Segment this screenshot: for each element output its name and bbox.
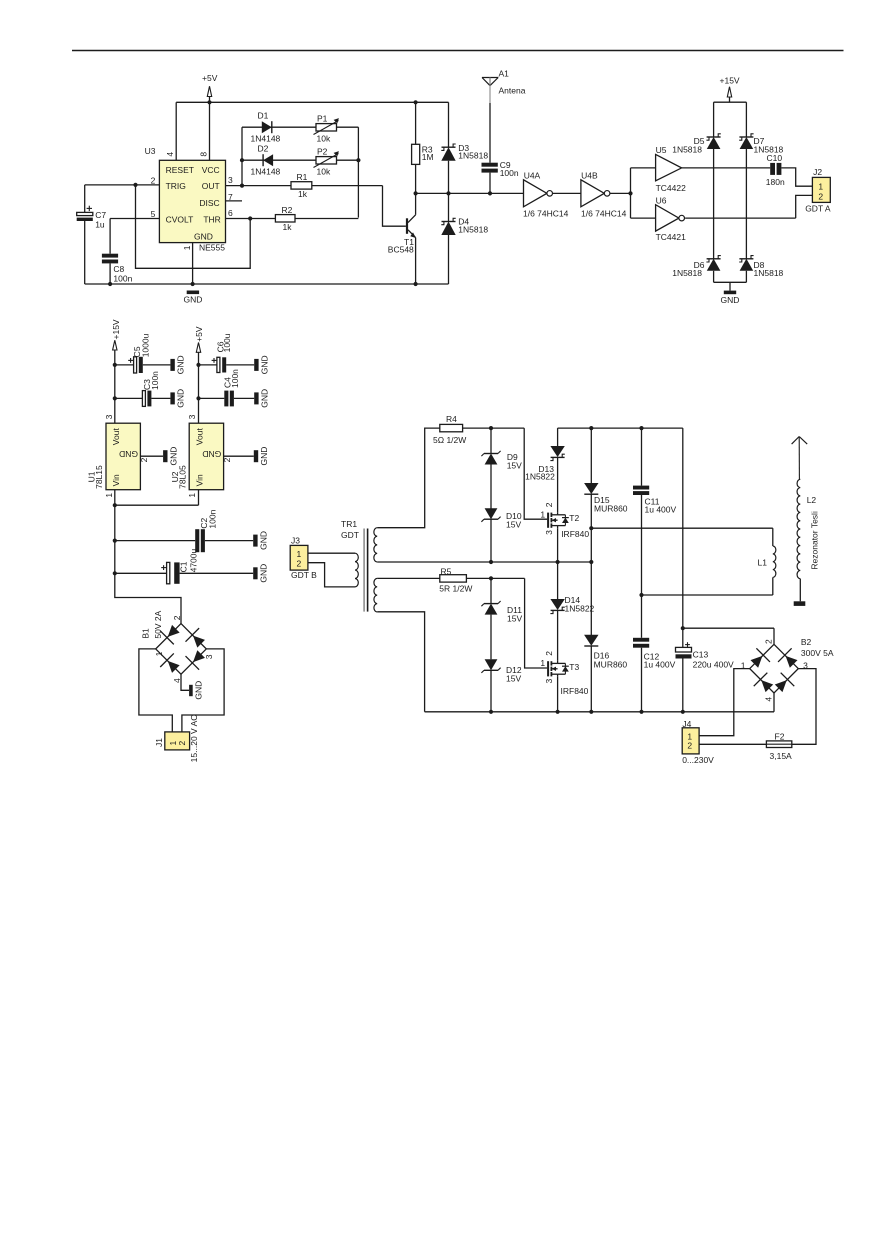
- svg-text:Vout: Vout: [111, 428, 121, 446]
- wire T3 source: [557, 677, 559, 712]
- ground U2 pin2: [224, 447, 269, 466]
- IC U3 NE555: [145, 146, 233, 253]
- diode D15 MUR860: [584, 428, 628, 562]
- svg-text:100n: 100n: [207, 509, 217, 528]
- capacitor C8 100n: [102, 219, 133, 285]
- mosfet T2 IRF840: [540, 502, 589, 539]
- wire +5V rail to U2: [196, 363, 200, 423]
- svg-text:GND: GND: [176, 389, 186, 408]
- connector J1: [154, 715, 199, 763]
- svg-text:GND: GND: [168, 447, 178, 466]
- svg-text:1M: 1M: [422, 152, 434, 162]
- wire TRIG: [85, 183, 160, 187]
- svg-text:5R 1/2W: 5R 1/2W: [439, 584, 472, 594]
- diode D6 1N5818: [672, 256, 721, 283]
- inductor L2 Rezonator Tesli: [792, 437, 820, 602]
- svg-text:GND: GND: [202, 449, 221, 459]
- regulator U1 78L15: [87, 414, 149, 497]
- svg-text:5Ω 1/2W: 5Ω 1/2W: [433, 435, 466, 445]
- svg-text:+5V: +5V: [194, 326, 204, 342]
- wire T3 gate path: [525, 578, 548, 668]
- wire GND bus: [85, 282, 449, 286]
- resistor R1 1k: [226, 172, 383, 199]
- zener D11 15V: [481, 578, 522, 659]
- wire L1 top row: [591, 528, 773, 546]
- ground B1 pin4: [181, 674, 203, 699]
- wire B2 pin3 to F2: [792, 669, 816, 745]
- svg-text:GDT A: GDT A: [805, 204, 831, 214]
- svg-text:P2: P2: [317, 146, 328, 156]
- ground C1: [253, 564, 268, 583]
- svg-text:2: 2: [687, 741, 692, 751]
- wire B2 pin1 to J4: [699, 669, 750, 736]
- svg-text:15V: 15V: [506, 673, 521, 683]
- capacitor C7 1u: [77, 185, 107, 284]
- inverter U4A 74HC14: [523, 170, 569, 218]
- svg-text:1N4148: 1N4148: [251, 134, 281, 144]
- wire driver top rail: [714, 101, 747, 103]
- svg-text:TC4421: TC4421: [656, 232, 687, 242]
- zener D12 15V: [481, 659, 521, 712]
- svg-text:100n: 100n: [230, 369, 240, 388]
- resistor R2 1k: [226, 205, 359, 232]
- ground C2: [253, 531, 268, 550]
- capacitor C13 220u 400V: [676, 642, 735, 712]
- svg-text:C13: C13: [693, 649, 709, 659]
- svg-text:R4: R4: [446, 414, 457, 424]
- ground at U3: [183, 291, 202, 305]
- ground driver: [721, 282, 740, 305]
- svg-text:1: 1: [182, 245, 192, 250]
- svg-text:100n: 100n: [500, 168, 519, 178]
- diode D4 1N5818: [441, 193, 488, 284]
- wire U4A-U4B: [553, 192, 581, 194]
- wire main rail down: [113, 505, 181, 624]
- svg-text:3: 3: [204, 654, 214, 659]
- svg-text:1: 1: [818, 181, 823, 191]
- transformer TR1 GDT: [341, 519, 377, 612]
- svg-text:+15V: +15V: [720, 75, 740, 85]
- svg-text:U5: U5: [656, 145, 667, 155]
- mosfet T3 IRF840: [540, 651, 588, 696]
- svg-text:T3: T3: [569, 662, 579, 672]
- svg-text:B1: B1: [141, 628, 151, 639]
- svg-text:GND: GND: [258, 564, 268, 583]
- svg-text:R5: R5: [441, 566, 452, 576]
- wire T2 source: [557, 528, 559, 562]
- wire U1-U2 Vin link: [113, 490, 199, 508]
- svg-text:+5V: +5V: [202, 73, 218, 83]
- svg-text:D1: D1: [258, 111, 269, 121]
- svg-text:P1: P1: [317, 113, 328, 123]
- antenna A1: [482, 69, 526, 163]
- svg-text:RESET: RESET: [166, 165, 194, 175]
- svg-text:T2: T2: [569, 513, 579, 523]
- svg-text:2: 2: [139, 457, 149, 462]
- svg-text:0...230V: 0...230V: [682, 755, 714, 765]
- svg-text:4: 4: [165, 152, 175, 157]
- wire B1 pin3 to J1: [182, 649, 224, 732]
- svg-text:GND: GND: [183, 295, 202, 305]
- svg-text:Rezonator Tesli: Rezonator Tesli: [810, 511, 820, 570]
- wire driver bottom rail: [714, 281, 747, 283]
- capacitor C10 180n: [766, 153, 785, 187]
- svg-text:GND: GND: [259, 389, 269, 408]
- zener D10 15V: [481, 508, 521, 562]
- ground C4: [254, 389, 269, 408]
- svg-text:A1: A1: [499, 69, 510, 79]
- svg-text:15V: 15V: [507, 460, 522, 470]
- svg-text:15V: 15V: [507, 613, 522, 623]
- svg-text:L1: L1: [758, 557, 768, 567]
- svg-text:15V: 15V: [506, 519, 521, 529]
- capacitor C1 4700u: [115, 548, 253, 583]
- svg-text:GND: GND: [259, 355, 269, 374]
- wire T2 gate path: [524, 428, 547, 519]
- zener D9 15V: [481, 428, 522, 509]
- connector J4: [682, 719, 714, 765]
- fuse F2 3.15A: [699, 731, 792, 760]
- svg-text:R1: R1: [297, 172, 308, 182]
- svg-text:1u 400V: 1u 400V: [645, 505, 677, 515]
- svg-text:3: 3: [544, 530, 554, 535]
- svg-text:C10: C10: [767, 153, 783, 163]
- svg-text:2: 2: [818, 191, 823, 201]
- wire bottom HV rail: [377, 612, 774, 714]
- bridge rectifier B1 50V 2A: [141, 610, 214, 683]
- inductor L1: [758, 546, 776, 577]
- svg-text:1/6 74HC14: 1/6 74HC14: [581, 208, 627, 218]
- wire C13 drop: [681, 428, 685, 647]
- svg-text:2: 2: [222, 457, 232, 462]
- svg-text:MUR860: MUR860: [594, 659, 628, 669]
- wire top HV bus: [558, 426, 683, 430]
- svg-text:J1: J1: [154, 738, 164, 747]
- potentiometer P1 10k: [314, 113, 339, 143]
- wire U6 out to J2 pin2: [685, 195, 812, 218]
- svg-text:180n: 180n: [766, 177, 785, 187]
- svg-text:1: 1: [187, 493, 197, 498]
- diode D5 1N5818: [672, 102, 721, 259]
- capacitor C9 100n: [482, 160, 519, 193]
- svg-text:U4B: U4B: [581, 170, 598, 180]
- capacitor C3 100n: [115, 371, 171, 407]
- svg-text:5: 5: [151, 209, 156, 219]
- power +15V symbol (PSU): [111, 319, 121, 365]
- resistor R4 5ohm: [433, 414, 524, 445]
- svg-text:GND: GND: [119, 449, 138, 459]
- svg-text:1: 1: [104, 493, 114, 498]
- capacitor C2 100n: [115, 509, 253, 552]
- capacitor C11 1u 400V: [633, 428, 676, 595]
- svg-text:3: 3: [544, 679, 554, 684]
- svg-text:4700u: 4700u: [189, 548, 199, 572]
- svg-text:4: 4: [172, 678, 182, 683]
- svg-text:GND: GND: [176, 355, 186, 374]
- wire top +5V bus: [176, 100, 448, 104]
- svg-text:10k: 10k: [317, 134, 331, 144]
- svg-text:TR1: TR1: [341, 519, 357, 529]
- diode D14 1N5822: [550, 562, 594, 661]
- svg-text:F2: F2: [775, 731, 785, 741]
- svg-text:GND: GND: [193, 681, 203, 700]
- svg-text:Vin: Vin: [194, 474, 204, 486]
- svg-text:CVOLT: CVOLT: [166, 214, 194, 224]
- svg-text:2: 2: [151, 175, 156, 185]
- svg-text:4: 4: [764, 697, 774, 702]
- wire L1 bottom row: [639, 577, 772, 597]
- svg-text:BC548: BC548: [388, 244, 414, 254]
- wire J3 pin2 to TR1: [308, 563, 355, 587]
- connector J2 GDT A: [805, 167, 831, 213]
- svg-text:1k: 1k: [283, 222, 293, 232]
- svg-text:B2: B2: [801, 637, 812, 647]
- wire +15V rail to U1: [113, 363, 117, 423]
- svg-text:100n: 100n: [113, 274, 132, 284]
- svg-text:1u 400V: 1u 400V: [644, 659, 676, 669]
- diode D1 1N4148: [242, 111, 358, 144]
- svg-text:C1: C1: [179, 561, 189, 572]
- svg-text:100u: 100u: [222, 333, 232, 352]
- power +15V symbol (driver): [720, 75, 740, 102]
- wire CVOLT: [110, 218, 159, 220]
- svg-text:78L05: 78L05: [178, 465, 188, 489]
- power +5V symbol: [202, 73, 218, 102]
- wire DISC stub: [226, 200, 243, 202]
- svg-text:IRF840: IRF840: [561, 686, 589, 696]
- ground L2: [794, 601, 806, 606]
- svg-text:D2: D2: [258, 144, 269, 154]
- svg-text:MUR860: MUR860: [594, 503, 628, 513]
- diode D2 1N4148: [240, 144, 361, 177]
- inverter U4B 74HC14: [581, 170, 627, 218]
- svg-text:J2: J2: [813, 167, 822, 177]
- transistor T1 BC548: [388, 193, 416, 284]
- svg-text:Antena: Antena: [499, 85, 526, 95]
- svg-text:DISC: DISC: [199, 198, 219, 208]
- wire U4B output fan: [610, 168, 656, 218]
- svg-text:1k: 1k: [298, 189, 308, 199]
- svg-text:8: 8: [199, 152, 209, 157]
- resistor R3 1M: [412, 102, 434, 193]
- svg-text:J4: J4: [682, 719, 691, 729]
- svg-text:2: 2: [172, 615, 182, 620]
- svg-text:TRIG: TRIG: [166, 181, 186, 191]
- wire B1 pin1 to J1: [139, 649, 172, 732]
- svg-text:U6: U6: [656, 196, 667, 206]
- diode D7 1N5818: [739, 102, 783, 259]
- regulator U2 78L05: [170, 414, 232, 497]
- svg-text:1: 1: [540, 658, 545, 668]
- svg-text:IRF840: IRF840: [561, 529, 589, 539]
- wire U5 out row: [682, 167, 771, 169]
- capacitor C4 100n: [199, 369, 255, 407]
- svg-text:100n: 100n: [150, 371, 160, 390]
- svg-text:1N5818: 1N5818: [458, 224, 488, 234]
- svg-text:1N4148: 1N4148: [251, 167, 281, 177]
- capacitor C5 1000u: [115, 333, 171, 373]
- wire C13 to B2: [683, 628, 774, 644]
- svg-text:GDT: GDT: [341, 530, 359, 540]
- svg-text:1N5818: 1N5818: [672, 144, 702, 154]
- wire signal node row: [414, 191, 524, 195]
- svg-text:Vin: Vin: [111, 474, 121, 486]
- svg-text:U4A: U4A: [524, 170, 541, 180]
- potentiometer P2 10k: [314, 146, 339, 176]
- svg-text:10k: 10k: [317, 167, 331, 177]
- svg-text:R2: R2: [282, 205, 293, 215]
- wire midpoint row: [377, 560, 593, 564]
- wire P-branch right vertical: [357, 127, 359, 217]
- connector J3 GDT B: [290, 535, 317, 580]
- svg-text:1u: 1u: [95, 219, 105, 229]
- ground C6: [254, 355, 269, 374]
- svg-text:2: 2: [297, 559, 302, 569]
- svg-text:L2: L2: [807, 495, 817, 505]
- resistor R5 5R: [377, 566, 524, 593]
- wire TR1 sec1 top to R4: [377, 428, 440, 528]
- svg-text:+15V: +15V: [111, 319, 121, 339]
- wire U3 pin4 to bus: [175, 102, 177, 160]
- diode D8 1N5818: [739, 256, 783, 283]
- diode D16 MUR860: [584, 562, 627, 712]
- svg-text:1N5818: 1N5818: [754, 268, 784, 278]
- svg-text:1000u: 1000u: [141, 333, 151, 357]
- svg-text:1: 1: [297, 549, 302, 559]
- svg-text:1N5822: 1N5822: [565, 604, 595, 614]
- svg-text:OUT: OUT: [202, 181, 220, 191]
- svg-text:GND: GND: [258, 531, 268, 550]
- svg-text:50V 2A: 50V 2A: [153, 610, 163, 638]
- svg-text:VCC: VCC: [202, 165, 220, 175]
- svg-text:1: 1: [154, 651, 164, 656]
- svg-text:1N5818: 1N5818: [672, 268, 702, 278]
- svg-text:1: 1: [540, 509, 545, 519]
- svg-text:300V 5A: 300V 5A: [801, 648, 834, 658]
- capacitor C12 1u 400V: [633, 595, 676, 712]
- bridge rectifier B2 300V 5A: [741, 637, 834, 701]
- wire C10 to J2 pin1: [781, 168, 812, 186]
- capacitor C6 100u: [199, 333, 255, 372]
- ground U1 pin2: [140, 447, 178, 466]
- ground C3: [170, 389, 185, 408]
- svg-text:3,15A: 3,15A: [770, 751, 793, 761]
- svg-text:78L15: 78L15: [94, 465, 104, 489]
- svg-text:GDT B: GDT B: [291, 570, 317, 580]
- svg-text:J3: J3: [291, 535, 300, 545]
- svg-text:TC4422: TC4422: [656, 183, 687, 193]
- diode D3 1N5818: [441, 102, 488, 193]
- svg-text:Vout: Vout: [194, 428, 204, 446]
- wire U3 pin8 to bus: [209, 102, 211, 160]
- power +5V symbol (PSU): [194, 326, 204, 365]
- svg-text:3: 3: [228, 175, 233, 185]
- svg-text:15...20 V AC: 15...20 V AC: [189, 715, 199, 763]
- svg-text:1N5822: 1N5822: [525, 472, 555, 482]
- svg-text:2: 2: [764, 639, 774, 644]
- svg-text:U3: U3: [145, 146, 156, 156]
- ground C5: [170, 355, 185, 374]
- wire J3 pin1 to TR1: [308, 552, 355, 554]
- diode D13 1N5822: [525, 428, 565, 482]
- svg-text:1/6 74HC14: 1/6 74HC14: [523, 208, 569, 218]
- wire U3 pin1: [192, 243, 194, 284]
- svg-text:NE555: NE555: [199, 243, 225, 253]
- wire D-branch left vertical: [240, 127, 244, 188]
- svg-text:GND: GND: [721, 295, 740, 305]
- svg-text:6: 6: [228, 208, 233, 218]
- wire T2 drain: [557, 458, 559, 512]
- svg-text:2: 2: [544, 502, 554, 507]
- wire T1 base path: [383, 186, 406, 227]
- svg-text:1N5818: 1N5818: [458, 150, 488, 160]
- driver U6 TC4421: [656, 196, 687, 243]
- wire TRIG-THR link: [136, 185, 253, 268]
- svg-text:GND: GND: [194, 231, 213, 241]
- svg-text:GND: GND: [259, 447, 269, 466]
- svg-text:2: 2: [544, 651, 554, 656]
- svg-text:3: 3: [104, 414, 114, 419]
- svg-text:2: 2: [177, 741, 187, 746]
- svg-text:THR: THR: [203, 214, 220, 224]
- svg-text:220u 400V: 220u 400V: [693, 659, 734, 669]
- driver U5 TC4422: [656, 145, 687, 193]
- svg-text:3: 3: [187, 414, 197, 419]
